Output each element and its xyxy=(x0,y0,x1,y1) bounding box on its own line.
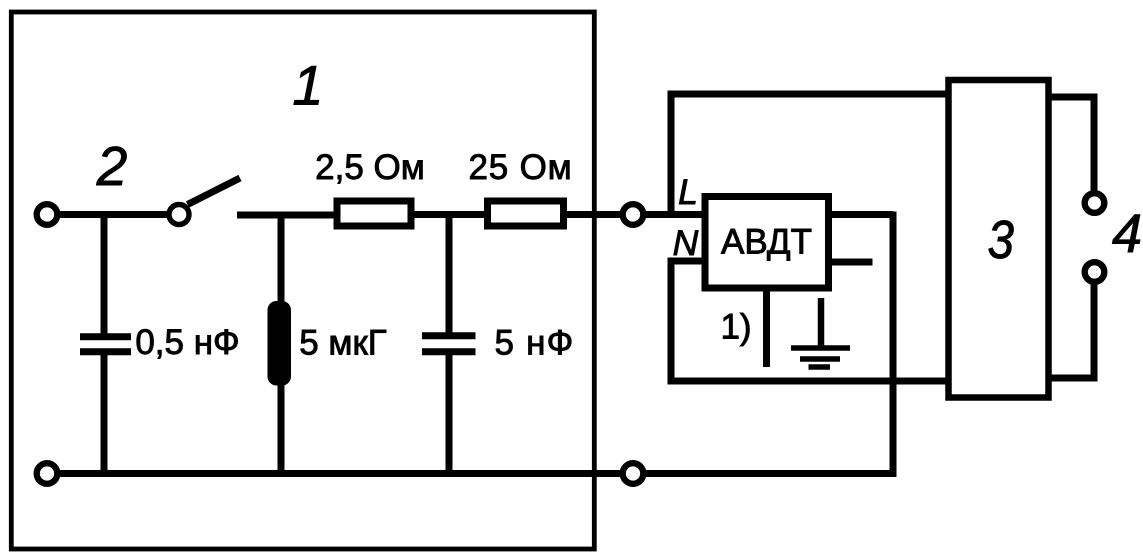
bottom wire terminal to riser xyxy=(645,470,897,477)
wire top horizontal to block 3 xyxy=(668,91,948,98)
wire L vertical up xyxy=(668,91,675,212)
capacitor C2 5 нФ xyxy=(422,215,476,475)
wire N vertical down xyxy=(668,258,675,385)
svg-text:АВДТ: АВДТ xyxy=(721,223,812,262)
inductor L1 5 мкГ xyxy=(268,215,292,475)
wire between resistors xyxy=(415,211,487,218)
bottom wire inside box 1 xyxy=(58,470,621,477)
wire right vertical to terminal 4 top xyxy=(1091,97,1098,191)
wire bottom horizontal to block 3 xyxy=(668,378,948,385)
svg-text:0,5 нФ: 0,5 нФ xyxy=(135,323,239,362)
box 1 (generator network enclosure) xyxy=(11,12,594,549)
svg-text:3: 3 xyxy=(987,209,1013,270)
wire terminal to АВДТ L input xyxy=(645,211,702,218)
terminal circle top-left xyxy=(37,204,58,225)
device АВДТ (RCBO) xyxy=(705,197,829,289)
svg-text:5 мкГ: 5 мкГ xyxy=(299,324,387,363)
wire top-left horizontal xyxy=(58,211,167,218)
terminal circle 4 top xyxy=(1085,193,1105,213)
terminal circle bottom-left xyxy=(37,463,58,484)
ground symbol xyxy=(791,298,850,367)
wire from terminal 4 bottom down xyxy=(1091,284,1098,378)
terminal circle 4 bottom xyxy=(1085,262,1105,282)
wire from R2 to terminal xyxy=(567,211,621,218)
svg-text:2: 2 xyxy=(96,135,128,197)
svg-text:2,5 Ом: 2,5 Ом xyxy=(315,148,425,187)
terminal circle top-right (L) xyxy=(623,204,644,225)
svg-text:4: 4 xyxy=(1112,204,1142,264)
block 3 xyxy=(949,80,1049,398)
svg-text:1): 1) xyxy=(720,308,751,347)
capacitor C1 0,5 нФ xyxy=(80,215,131,475)
wire block 3 top-right xyxy=(1052,94,1098,101)
svg-text:1: 1 xyxy=(292,54,323,117)
resistor R2 25 Ом xyxy=(488,201,564,226)
resistor R1 2,5 Ом xyxy=(337,201,411,226)
wire stub right of АВДТ xyxy=(832,259,873,266)
wire N horizontal to АВДТ xyxy=(668,258,702,265)
svg-text:N: N xyxy=(673,223,699,263)
wire after switch xyxy=(237,212,336,219)
wire block 3 bottom-right xyxy=(1052,375,1098,382)
wire test line below АВДТ xyxy=(763,291,770,367)
wire riser x=893 xyxy=(890,212,897,477)
svg-text:25 Ом: 25 Ом xyxy=(469,148,573,187)
terminal circle bottom-right (N) xyxy=(623,463,644,484)
svg-text:L: L xyxy=(678,172,698,212)
svg-text:5 нФ: 5 нФ xyxy=(495,324,575,363)
wire АВДТ output to riser xyxy=(832,211,893,218)
switch S1 xyxy=(169,178,240,225)
